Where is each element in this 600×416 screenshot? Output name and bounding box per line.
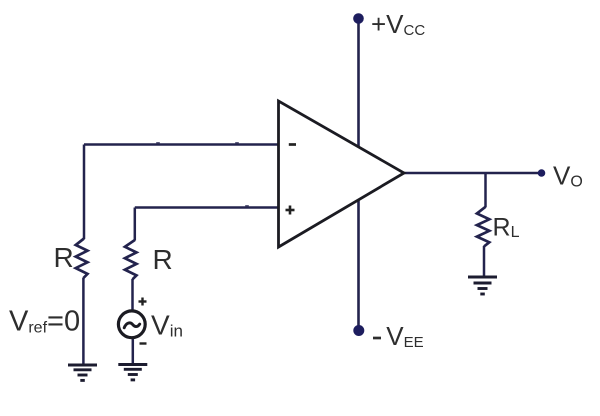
svg-text:VEE: VEE (386, 321, 423, 351)
svg-text:Vin: Vin (151, 310, 183, 341)
svg-text:VO: VO (553, 161, 583, 191)
svg-text:R: R (54, 242, 74, 273)
svg-text:+VCC: +VCC (371, 9, 425, 39)
svg-text:RL: RL (493, 214, 520, 242)
svg-text:R: R (153, 244, 173, 275)
svg-text:Vref=0: Vref=0 (9, 306, 80, 338)
